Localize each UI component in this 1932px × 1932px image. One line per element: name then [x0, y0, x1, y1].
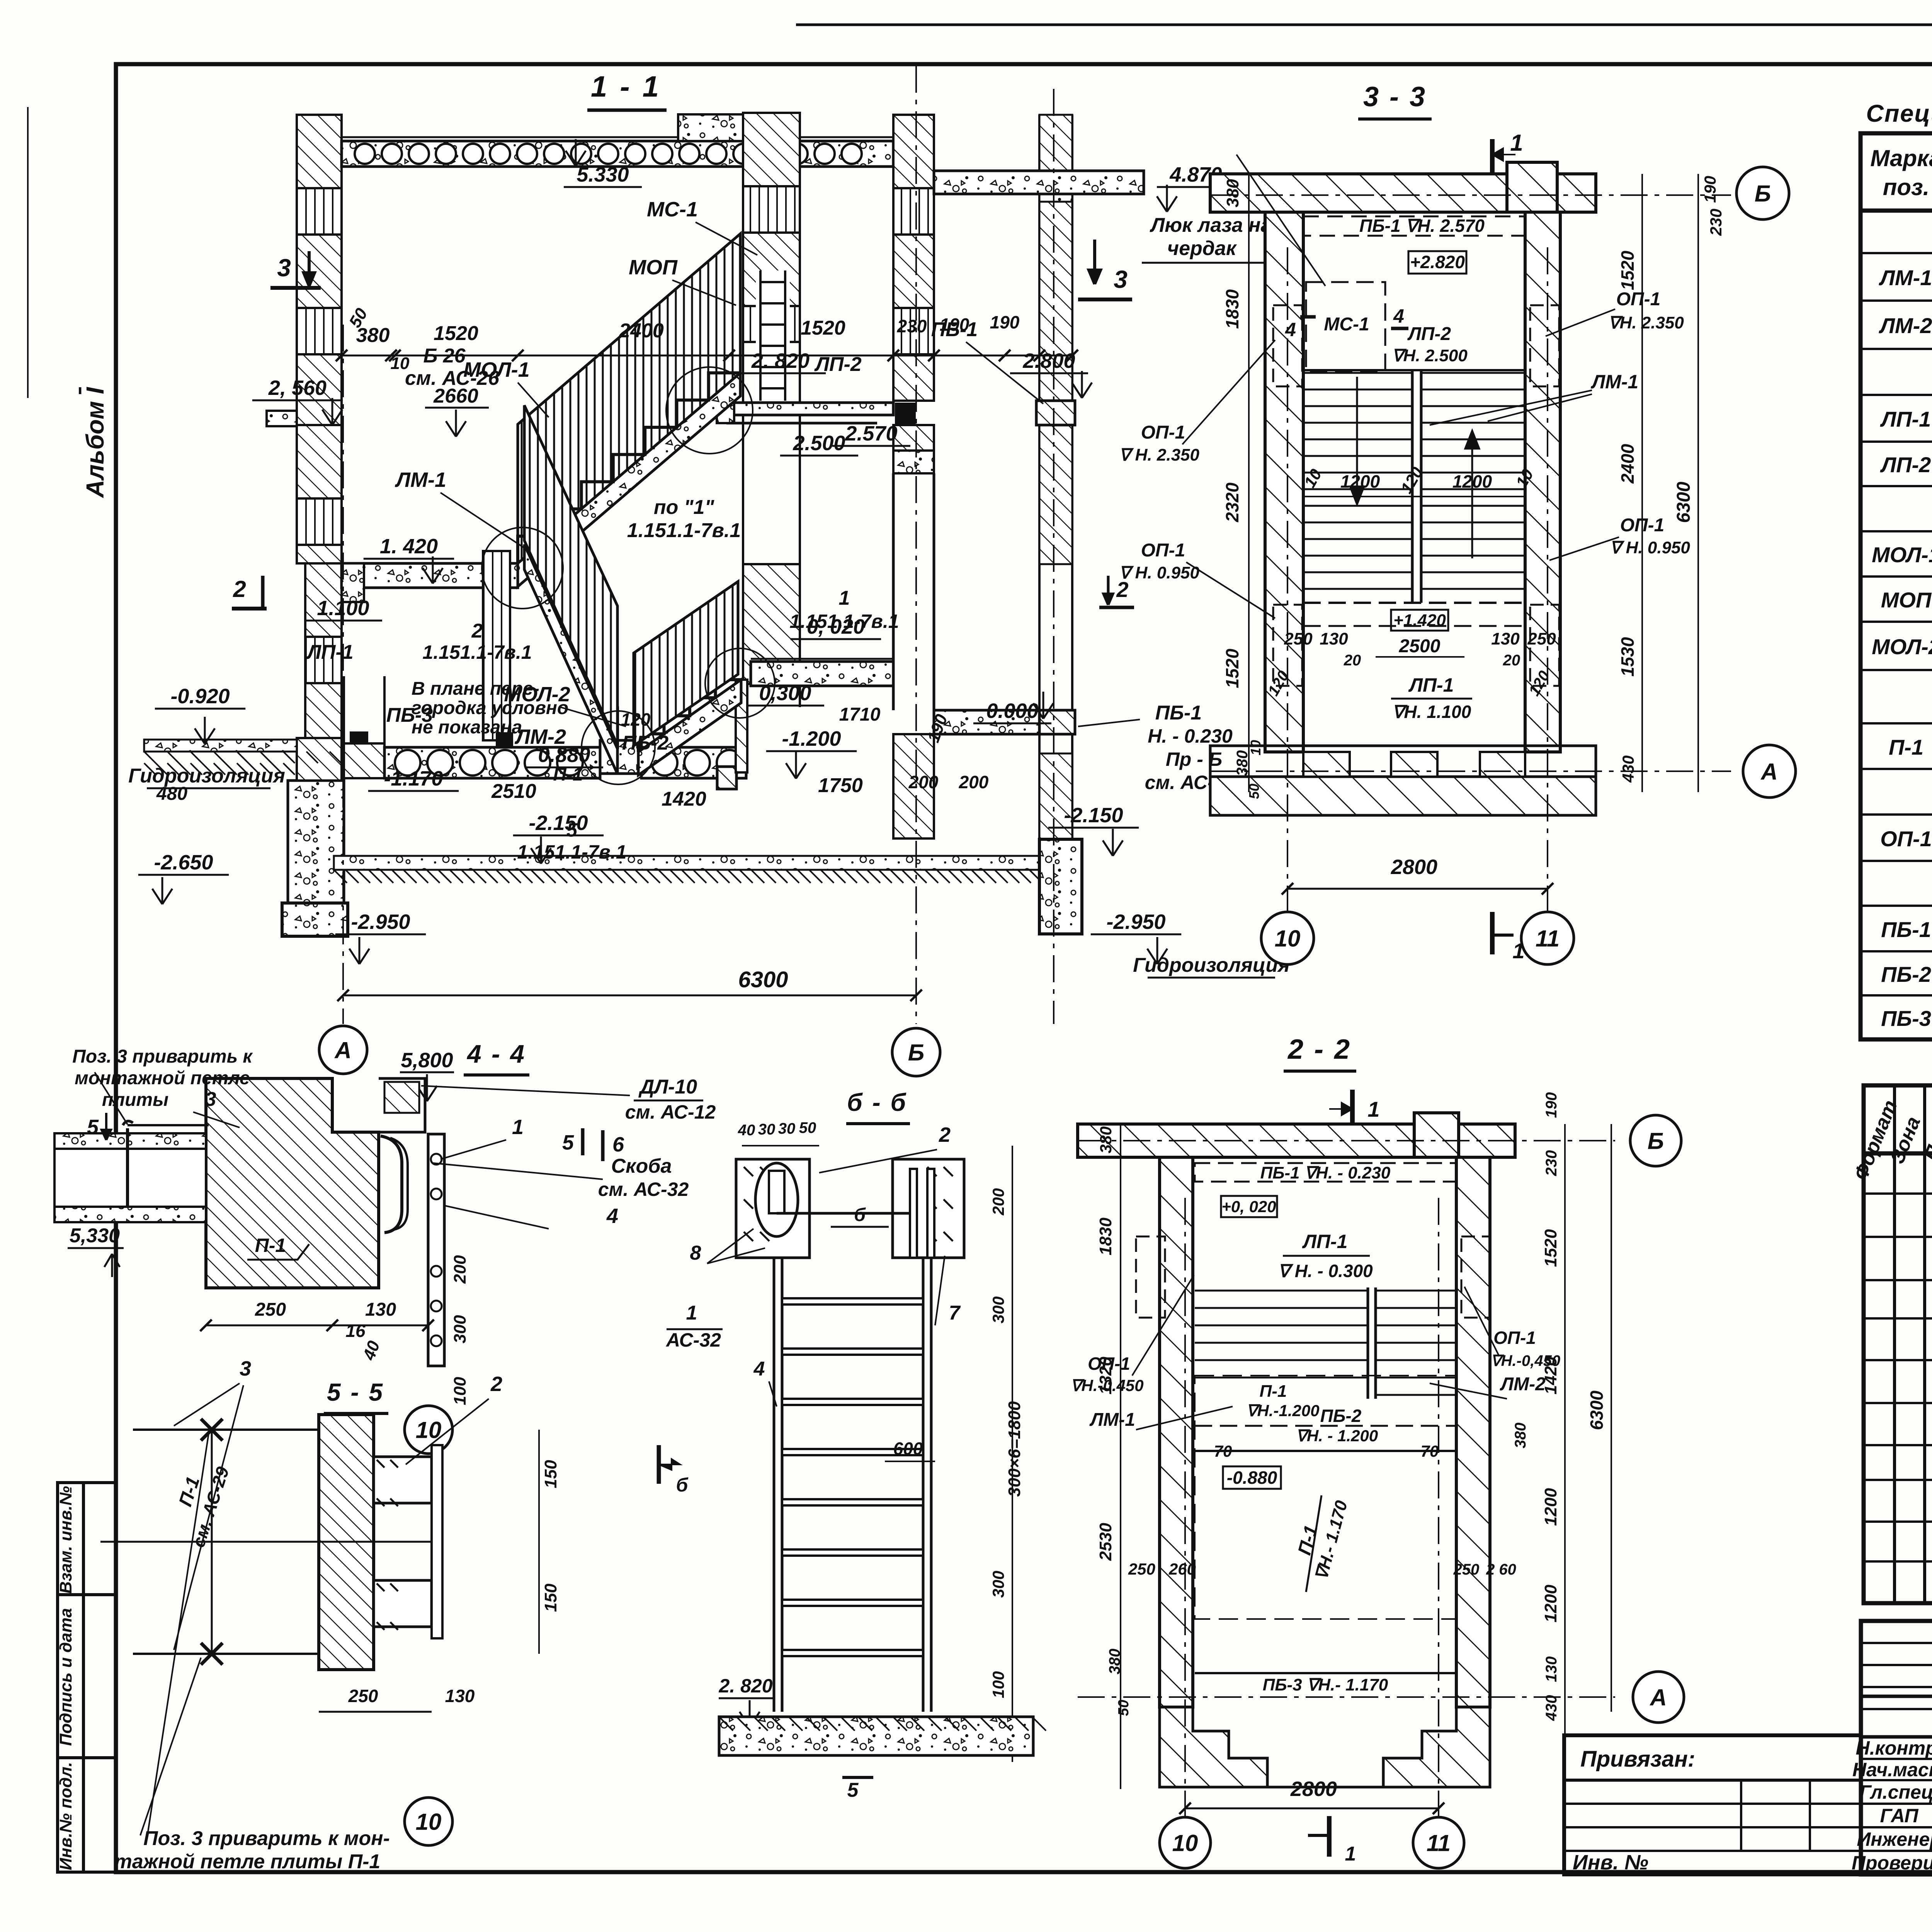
svg-text:ГАП: ГАП [1880, 1805, 1919, 1827]
svg-text:380: 380 [1106, 1649, 1123, 1675]
2-2 dim 2800 [1185, 1808, 1439, 1810]
svg-text:1520: 1520 [1222, 648, 1242, 688]
svg-text:ПБ-3: ПБ-3 [386, 704, 433, 726]
3-3 dashed landing edges [1303, 369, 1525, 371]
1-1 left wall foundation [288, 781, 344, 903]
svg-text:600: 600 [893, 1439, 923, 1459]
svg-text:2 - 2: 2 - 2 [1287, 1034, 1351, 1065]
svg-text:1 - 1: 1 - 1 [591, 70, 661, 103]
svg-text:П-1: П-1 [1260, 1382, 1287, 1401]
1-1 axis circle A [319, 1026, 367, 1074]
4-4 dims 250 130 [206, 1325, 428, 1327]
svg-text:2320: 2320 [1222, 482, 1242, 522]
svg-text:Подпись и дата: Подпись и дата [56, 1608, 75, 1746]
svg-text:Поз. 3 приварить к: Поз. 3 приварить к [72, 1046, 253, 1067]
svg-text:ДЛ-10: ДЛ-10 [638, 1076, 697, 1098]
svg-text:ПБ-3: ПБ-3 [1881, 1006, 1931, 1031]
svg-text:ОП-1: ОП-1 [1141, 540, 1185, 561]
svg-text:1520: 1520 [434, 322, 478, 345]
svg-text:3: 3 [277, 254, 291, 282]
svg-text:1. 420: 1. 420 [380, 535, 438, 558]
svg-text:2: 2 [471, 620, 483, 642]
4-4 corner bracket detail [379, 1078, 425, 1132]
2-2 right dim chain [1564, 1124, 1566, 1789]
svg-text:ЛМ-2: ЛМ-2 [1500, 1374, 1546, 1395]
svg-text:3: 3 [240, 1357, 251, 1380]
svg-text:11: 11 [1536, 926, 1560, 952]
svg-text:16: 16 [345, 1321, 366, 1341]
outer top paper line [796, 24, 1932, 26]
svg-text:200: 200 [908, 772, 939, 792]
svg-text:Н. - 0.230: Н. - 0.230 [1148, 725, 1233, 747]
svg-text:2: 2 [490, 1372, 502, 1396]
svg-text:130: 130 [1543, 1656, 1560, 1682]
svg-text:1420: 1420 [662, 788, 706, 810]
B-B top anchor plates [736, 1159, 810, 1258]
2-2 top wall [1078, 1124, 1515, 1157]
svg-text:1520: 1520 [801, 317, 845, 339]
svg-text:4: 4 [753, 1358, 765, 1380]
1-1 dim 6300 [343, 995, 916, 997]
1-1 landing 1.420 LP-1 [342, 563, 518, 588]
svg-text:Гл.спец.: Гл.спец. [1859, 1781, 1932, 1803]
svg-text:50: 50 [799, 1119, 816, 1136]
left margin boxes [58, 1483, 116, 1872]
2-2 bottom lintel PB-3 [1195, 1672, 1456, 1674]
5-5 dims 250 130 [319, 1711, 432, 1713]
svg-text:ЛП-1: ЛП-1 [306, 641, 353, 663]
svg-text:б: б [676, 1474, 689, 1496]
3-3 outer wall lines [1210, 211, 1265, 213]
svg-text:Гидроизоляция: Гидроизоляция [1133, 954, 1290, 976]
svg-text:МС-1: МС-1 [1324, 314, 1369, 335]
svg-text:-2.650: -2.650 [154, 851, 213, 874]
svg-text:по "1": по "1" [654, 496, 715, 519]
1-1 left basement wall stub [343, 676, 345, 747]
svg-text:1200: 1200 [1541, 1585, 1560, 1622]
svg-text:ЛП-2: ЛП-2 [814, 353, 861, 376]
svg-text:5 - 5: 5 - 5 [327, 1378, 384, 1406]
2-2 level box +0.020 [1221, 1196, 1277, 1217]
1-1 landing 2.800 LP-2 [709, 403, 893, 415]
svg-text:300: 300 [451, 1315, 469, 1344]
title block frame [1861, 1621, 1932, 1874]
1-1 flight 3 railing [634, 582, 738, 746]
svg-text:2 60: 2 60 [1486, 1561, 1516, 1578]
svg-text:4: 4 [1285, 319, 1296, 340]
svg-text:5.330: 5.330 [577, 163, 629, 186]
svg-text:тажной петле плиты П-1: тажной петле плиты П-1 [114, 1850, 381, 1873]
svg-text:Б: Б [1755, 181, 1771, 207]
svg-text:2530: 2530 [1096, 1523, 1115, 1561]
svg-text:ЛП-2: ЛП-2 [1880, 452, 1931, 477]
section 3-3 view [1099, 82, 1796, 964]
svg-text:10: 10 [416, 1809, 442, 1835]
svg-text:5,800: 5,800 [401, 1049, 453, 1072]
svg-text:ПБ-1: ПБ-1 [931, 318, 978, 341]
svg-text:ОП-1: ОП-1 [1493, 1328, 1536, 1348]
2-2 lintel PB-1 dashed top [1195, 1163, 1456, 1182]
svg-text:20: 20 [1344, 652, 1361, 669]
svg-text:МОП: МОП [1881, 588, 1932, 612]
svg-text:1200: 1200 [1541, 1488, 1560, 1526]
svg-text:∇Н. - 1.200: ∇Н. - 1.200 [1296, 1427, 1378, 1445]
2-2 bottom foundation [1160, 1707, 1267, 1787]
1-1 left wall masonry [297, 115, 342, 425]
svg-text:Проверил: Проверил [1852, 1852, 1932, 1874]
1-1 roof slab 5.330 [342, 141, 893, 167]
1-1 soil hatch under basement floor [334, 870, 1043, 883]
5-5 anchors X [201, 1419, 223, 1440]
svg-text:430: 430 [1543, 1695, 1560, 1721]
svg-text:1.151.1-7в.1: 1.151.1-7в.1 [517, 841, 626, 863]
3-3 bottom dim 2800 [1287, 888, 1548, 890]
1-1 far right wall [1038, 115, 1041, 839]
spec table grid [1861, 133, 1932, 1039]
1-1 slab 4.870 right [934, 171, 1144, 194]
svg-text:монтажной петле: монтажной петле [75, 1068, 250, 1088]
svg-text:6: 6 [612, 1133, 624, 1156]
4-4 vertical strip with holes [428, 1134, 444, 1366]
1-1 soil hatch left of foundation [144, 763, 295, 775]
svg-text:чердак: чердак [1167, 237, 1237, 260]
svg-text:250: 250 [1128, 1560, 1155, 1578]
1-1 stair hall low wall [736, 680, 747, 772]
svg-text:10: 10 [1248, 740, 1264, 755]
svg-text:1830: 1830 [1096, 1218, 1115, 1255]
svg-text:1: 1 [1345, 1843, 1356, 1865]
svg-text:П-1: П-1 [1889, 735, 1923, 759]
svg-text:Нач.маст: Нач.маст [1852, 1759, 1932, 1781]
svg-text:1520: 1520 [1617, 250, 1638, 290]
svg-text:1.151.1-7в.1: 1.151.1-7в.1 [422, 641, 532, 663]
svg-text:Н.контр.: Н.контр. [1856, 1737, 1932, 1759]
B-B rungs [782, 1298, 923, 1304]
svg-text:50: 50 [1246, 784, 1262, 799]
svg-text:2. 820: 2. 820 [751, 349, 810, 372]
svg-text:380: 380 [1097, 1126, 1115, 1153]
svg-text:ЛП-2: ЛП-2 [1407, 324, 1451, 344]
svg-text:+2.820: +2.820 [1410, 252, 1465, 272]
svg-text:∇ Н. 2.350: ∇ Н. 2.350 [1119, 446, 1200, 464]
1-1 axis lines [342, 325, 344, 1024]
svg-text:А: А [1760, 759, 1777, 785]
svg-text:2500: 2500 [1399, 636, 1440, 656]
svg-text:2.570: 2.570 [845, 422, 897, 445]
svg-text:30: 30 [758, 1121, 776, 1138]
svg-text:200: 200 [989, 1188, 1007, 1216]
svg-text:7: 7 [949, 1302, 961, 1324]
svg-text:-2.950: -2.950 [1106, 910, 1165, 934]
svg-text:130: 130 [365, 1299, 396, 1320]
svg-text:70: 70 [1421, 1442, 1439, 1460]
svg-text:10: 10 [1172, 1830, 1198, 1856]
svg-text:2: 2 [1116, 577, 1128, 602]
detail 4-4 [54, 1039, 716, 1454]
3-3 lintel PB-1 dashed [1303, 216, 1525, 236]
svg-text:ЛМ-1: ЛМ-1 [1591, 371, 1638, 393]
svg-text:480: 480 [156, 784, 187, 804]
detail 5-5 [100, 1357, 560, 1873]
svg-text:250: 250 [1527, 629, 1556, 648]
svg-text:250: 250 [255, 1299, 286, 1320]
svg-text:2800: 2800 [1290, 1777, 1337, 1801]
3-3 top wall [1210, 174, 1596, 212]
svg-text:6300: 6300 [1673, 481, 1694, 523]
svg-text:6300: 6300 [738, 967, 788, 992]
svg-text:б - б: б - б [847, 1088, 907, 1116]
svg-text:230: 230 [1543, 1150, 1560, 1177]
svg-text:5: 5 [566, 819, 578, 841]
2-2 axes [1078, 1140, 1615, 1141]
svg-text:190: 190 [1543, 1092, 1560, 1118]
5-5 wall hatched [319, 1415, 374, 1670]
svg-text:А: А [334, 1037, 351, 1063]
3-3 axes [1210, 194, 1731, 196]
2-2 level box -0.880 [1223, 1466, 1281, 1489]
1-1 shaft walls below [742, 342, 744, 707]
B-B ladder rails [773, 1258, 776, 1712]
svg-text:2.500: 2.500 [793, 432, 845, 455]
svg-text:0.000: 0.000 [986, 699, 1038, 723]
detail B-B ladder [659, 1088, 1046, 1801]
svg-text:4 - 4: 4 - 4 [466, 1039, 526, 1068]
svg-text:-2.150: -2.150 [529, 811, 588, 835]
1-1 lintel PB-1 blocks [1036, 401, 1075, 425]
svg-text:230: 230 [1707, 209, 1725, 236]
svg-text:1830: 1830 [1222, 289, 1242, 329]
svg-text:Инв. №: Инв. № [1573, 1851, 1648, 1874]
svg-text:Инженер: Инженер [1857, 1828, 1932, 1850]
svg-text:6300: 6300 [1587, 1390, 1607, 1430]
svg-text:АС-32: АС-32 [665, 1329, 721, 1351]
svg-text:1: 1 [1510, 130, 1523, 156]
svg-text:Б: Б [1648, 1128, 1664, 1154]
svg-text:2: 2 [233, 576, 246, 602]
svg-text:Поз. 3 приварить к мон-: Поз. 3 приварить к мон- [143, 1827, 390, 1850]
3-3 right wall [1525, 212, 1560, 752]
svg-text:МОП: МОП [629, 256, 678, 279]
svg-text:250: 250 [1453, 1561, 1480, 1578]
svg-text:ЛМ-2: ЛМ-2 [1879, 313, 1932, 338]
svg-text:2660: 2660 [433, 385, 478, 407]
svg-text:-0.920: -0.920 [170, 685, 230, 708]
4-4 circle 10 [405, 1406, 452, 1454]
svg-text:260: 260 [1168, 1560, 1196, 1578]
4-4 anchor rod [126, 1128, 129, 1207]
svg-text:3: 3 [205, 1088, 216, 1111]
1-1 PB-2 block at flight foot [717, 767, 736, 789]
1-1 basement partition wall [483, 551, 510, 740]
svg-text:ОП-1: ОП-1 [1616, 289, 1661, 310]
3-3 left dim chain [1248, 174, 1250, 792]
1-1 top dim chain [342, 355, 1072, 357]
3-3 flight center rails [1411, 370, 1414, 603]
section 2-2 view [1070, 1034, 1684, 1868]
svg-text:-1.200: -1.200 [782, 727, 841, 750]
svg-text:1: 1 [512, 1116, 524, 1139]
svg-text:б: б [854, 1205, 866, 1225]
svg-text:Альбом I: Альбом I [81, 387, 109, 498]
svg-text:2400: 2400 [619, 320, 664, 342]
svg-text:∇Н. 2.350: ∇Н. 2.350 [1608, 313, 1684, 332]
svg-text:100: 100 [451, 1377, 469, 1405]
svg-text:Пр - Б: Пр - Б [1166, 748, 1222, 770]
1-1 axis circle B [892, 1028, 940, 1076]
svg-text:∇ Н. 0.950: ∇ Н. 0.950 [1610, 538, 1690, 557]
3-3 flight arrows [1350, 377, 1364, 504]
2-2 cut mark 1 top [1350, 1090, 1355, 1132]
svg-text:ПБ-2: ПБ-2 [1320, 1406, 1362, 1426]
2-2 right wall [1456, 1157, 1490, 1707]
svg-text:190: 190 [1701, 176, 1719, 203]
svg-text:ЛП-1: ЛП-1 [1408, 674, 1454, 696]
svg-text:Гидроизоляция: Гидроизоляция [128, 765, 285, 787]
svg-text:1: 1 [1367, 1097, 1379, 1121]
svg-text:1.151.1-7в.1: 1.151.1-7в.1 [789, 611, 899, 632]
svg-text:150: 150 [541, 1460, 560, 1488]
svg-text:МОЛ-2: МОЛ-2 [1872, 634, 1932, 659]
parts table grid [1864, 1085, 1932, 1603]
1-1 flight 5 (basement to -0.300) [638, 680, 741, 775]
3-3 MC-1 hatch box dashed [1306, 282, 1385, 371]
1-1 slab 2.560 stub left [267, 411, 297, 426]
svg-text:200: 200 [451, 1255, 469, 1284]
svg-text:5,330: 5,330 [70, 1225, 120, 1247]
1-1 flight 2 (down to basement) [524, 544, 617, 774]
svg-text:2. 820: 2. 820 [718, 1675, 772, 1697]
2-2 axis circles [1630, 1115, 1681, 1166]
svg-text:П-1: П-1 [255, 1235, 286, 1256]
1-1 corridor slab 0.000 [934, 710, 1039, 734]
2-2 cut mark 1 bottom [1327, 1816, 1332, 1857]
svg-text:1420: 1420 [1541, 1357, 1560, 1395]
1-1 parapet block [678, 114, 800, 141]
5-5 plate lines [133, 1429, 319, 1431]
svg-text:1200: 1200 [1452, 471, 1492, 492]
svg-text:2, 560: 2, 560 [268, 376, 327, 400]
1-1 flight LM-2 foot block [600, 740, 641, 774]
3-3 bottom wall [1210, 746, 1596, 777]
3-3 flights treads [1303, 373, 1525, 589]
svg-text:50: 50 [1116, 1700, 1132, 1716]
svg-text:2: 2 [939, 1123, 951, 1146]
3-3 left wall [1265, 212, 1303, 752]
svg-text:380: 380 [1512, 1423, 1529, 1449]
svg-text:ЛП-1: ЛП-1 [1302, 1231, 1348, 1252]
svg-text:ЛМ-1: ЛМ-1 [1089, 1410, 1135, 1430]
svg-text:5: 5 [847, 1779, 859, 1801]
3-3 level box 2.820 [1408, 251, 1466, 274]
svg-text:3 - 3: 3 - 3 [1363, 82, 1427, 112]
2-2 dashed inner rect lower [1195, 1376, 1456, 1619]
1-1 detail callout circles [666, 367, 753, 454]
4-4 slab P-1 [54, 1133, 206, 1149]
MC-1 ladder [756, 270, 790, 401]
svg-text:20: 20 [1503, 652, 1520, 669]
svg-text:ПБ-2: ПБ-2 [1881, 962, 1931, 986]
3-3 cut mark 1 top [1490, 139, 1495, 182]
svg-text:ПБ-1 ∇Н. 2.570: ПБ-1 ∇Н. 2.570 [1359, 216, 1485, 236]
svg-text:130: 130 [445, 1686, 475, 1706]
svg-text:П-1: П-1 [553, 764, 583, 785]
B-B ground band [719, 1717, 1033, 1755]
svg-text:11: 11 [1427, 1830, 1451, 1856]
svg-text:∇Н. 1.100: ∇Н. 1.100 [1392, 702, 1471, 722]
svg-text:2510: 2510 [491, 780, 536, 803]
svg-text:5: 5 [562, 1131, 574, 1154]
svg-text:1.100: 1.100 [317, 597, 369, 620]
B-B cut mark b bottom [657, 1445, 661, 1484]
1-1 basement floor slab [334, 856, 1039, 870]
svg-text:МОЛ-2: МОЛ-2 [504, 683, 570, 706]
svg-text:МС-1: МС-1 [647, 198, 698, 221]
svg-text:2400: 2400 [1617, 444, 1638, 484]
svg-text:4: 4 [1393, 305, 1404, 327]
svg-text:1750: 1750 [818, 774, 863, 797]
1-1 stair shaft MC-1 column [743, 113, 800, 342]
1-1 right wall [893, 115, 934, 401]
svg-text:Привязан:: Привязан: [1580, 1747, 1695, 1772]
svg-text:70: 70 [1214, 1442, 1232, 1460]
svg-text:ОП-1: ОП-1 [1141, 422, 1185, 443]
1-1 basement slab P-1 with cores [384, 747, 600, 778]
svg-text:150: 150 [541, 1583, 560, 1612]
2-2 treads upper [1195, 1291, 1456, 1395]
svg-text:поз.: поз. [1883, 174, 1930, 200]
svg-text:1520: 1520 [1541, 1229, 1560, 1267]
2-2 OP-1 pads dashed [1136, 1236, 1165, 1318]
svg-text:∇ Н. - 0.300: ∇ Н. - 0.300 [1278, 1261, 1373, 1281]
svg-text:250: 250 [348, 1686, 378, 1706]
1-1 flight LM-1 (up to 2.800) [518, 234, 740, 563]
svg-text:1: 1 [686, 1302, 697, 1324]
svg-text:380: 380 [1223, 179, 1242, 207]
svg-text:8: 8 [690, 1242, 701, 1264]
svg-text:10: 10 [1275, 926, 1301, 952]
svg-text:ОП-1: ОП-1 [1880, 827, 1932, 851]
svg-text:120: 120 [621, 709, 651, 730]
3-3 axis circles [1736, 167, 1789, 219]
svg-text:40: 40 [738, 1122, 755, 1139]
svg-text:300×6=1800: 300×6=1800 [1005, 1401, 1024, 1497]
svg-text:∇Н. 2.500: ∇Н. 2.500 [1392, 346, 1468, 365]
svg-text:0,300: 0,300 [759, 682, 811, 705]
privyazan box [1564, 1735, 1861, 1874]
svg-text:2.800: 2.800 [1022, 349, 1075, 372]
svg-text:2800: 2800 [1391, 855, 1437, 879]
B-B right dim chain [1012, 1146, 1013, 1762]
svg-text:ЛМ-2: ЛМ-2 [514, 725, 566, 748]
3-3 cut mark 1 bottom [1490, 912, 1495, 954]
svg-text:см. АС-32: см. АС-32 [598, 1179, 689, 1200]
svg-text:+0, 020: +0, 020 [1221, 1197, 1276, 1216]
svg-text:-0.880: -0.880 [1227, 1468, 1277, 1488]
2-2 left dim chain [1120, 1124, 1121, 1789]
3-3 right dim chains [1641, 174, 1643, 792]
svg-text:ПБ-2: ПБ-2 [622, 732, 669, 754]
1-1 exterior ground slab left [144, 740, 297, 752]
svg-text:4: 4 [606, 1204, 618, 1228]
svg-text:ЛП-1: ЛП-1 [1880, 407, 1931, 431]
svg-text:-2.950: -2.950 [351, 910, 410, 934]
svg-text:300: 300 [989, 1296, 1007, 1323]
svg-text:100: 100 [989, 1671, 1007, 1698]
svg-text:см. АС-12: см. АС-12 [625, 1101, 716, 1123]
svg-text:МОЛ-1: МОЛ-1 [463, 358, 529, 381]
svg-text:ПБ-1: ПБ-1 [1155, 702, 1202, 724]
svg-text:ПБ-1: ПБ-1 [1881, 917, 1931, 942]
